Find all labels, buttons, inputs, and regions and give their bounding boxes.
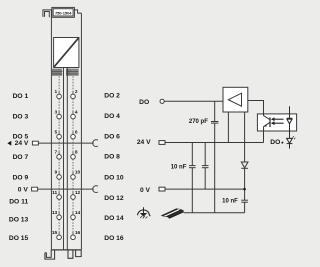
svg-text:DO 9: DO 9 bbox=[13, 174, 29, 181]
svg-text:DO 11: DO 11 bbox=[9, 198, 28, 205]
svg-text:DO: DO bbox=[139, 99, 149, 106]
svg-text:5: 5 bbox=[55, 129, 58, 135]
svg-text:16: 16 bbox=[75, 230, 81, 236]
svg-text:24 V: 24 V bbox=[137, 139, 151, 146]
svg-text:8: 8 bbox=[75, 150, 78, 156]
svg-text:4: 4 bbox=[75, 109, 78, 115]
svg-text:DO 1: DO 1 bbox=[13, 93, 29, 100]
svg-text:11: 11 bbox=[52, 190, 57, 196]
svg-text:15: 15 bbox=[52, 230, 58, 236]
svg-text:750-1504: 750-1504 bbox=[55, 10, 72, 15]
svg-text:13: 13 bbox=[52, 210, 58, 216]
svg-text:DO 6: DO 6 bbox=[104, 133, 120, 140]
svg-text:3: 3 bbox=[55, 109, 58, 115]
svg-text:DO 15: DO 15 bbox=[9, 235, 29, 242]
svg-text:DO: DO bbox=[270, 139, 280, 146]
svg-text:DO 13: DO 13 bbox=[9, 217, 29, 224]
svg-text:6: 6 bbox=[75, 129, 78, 135]
svg-text:1: 1 bbox=[55, 89, 58, 95]
svg-text:DO 12: DO 12 bbox=[104, 195, 124, 202]
svg-text:DO 7: DO 7 bbox=[13, 154, 29, 161]
svg-text:DO 14: DO 14 bbox=[104, 215, 124, 222]
svg-text:DO 4: DO 4 bbox=[104, 113, 120, 120]
svg-text:DO 3: DO 3 bbox=[13, 113, 29, 120]
svg-text:270 pF: 270 pF bbox=[189, 119, 208, 125]
svg-text:10 nF: 10 nF bbox=[171, 164, 187, 170]
svg-text:0 V: 0 V bbox=[18, 186, 29, 193]
svg-text:7: 7 bbox=[55, 150, 58, 156]
svg-text:14: 14 bbox=[75, 210, 81, 216]
svg-text:12: 12 bbox=[75, 190, 81, 196]
svg-text:0 V: 0 V bbox=[140, 187, 151, 194]
svg-text:24 V: 24 V bbox=[15, 140, 29, 147]
svg-text:DO 16: DO 16 bbox=[104, 235, 124, 242]
svg-text:DO 8: DO 8 bbox=[104, 154, 120, 161]
svg-text:2: 2 bbox=[75, 89, 78, 95]
svg-text:DO 10: DO 10 bbox=[104, 174, 124, 181]
svg-text:9: 9 bbox=[55, 170, 58, 176]
svg-text:10: 10 bbox=[75, 170, 81, 176]
svg-text:10 nF: 10 nF bbox=[222, 199, 238, 205]
svg-text:DO 2: DO 2 bbox=[104, 93, 120, 100]
